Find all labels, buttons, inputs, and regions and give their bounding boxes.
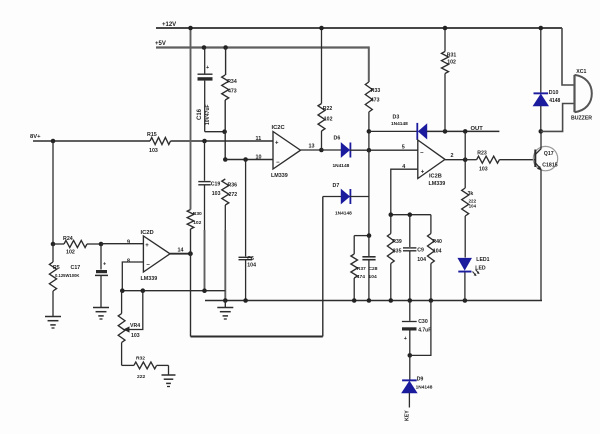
wire ground bus <box>205 300 542 302</box>
op-amp IC2C <box>256 125 301 179</box>
svg-text:C17: C17 <box>71 265 81 271</box>
op-amp IC2D <box>127 230 170 282</box>
svg-text:+5V: +5V <box>155 41 166 47</box>
wire +12V down to D10 <box>540 28 542 92</box>
svg-text:C19: C19 <box>211 182 221 188</box>
svg-text:C30: C30 <box>418 319 428 325</box>
svg-text:OUT: OUT <box>471 126 484 132</box>
junction +12V R31 <box>443 26 448 31</box>
svg-text:XC1: XC1 <box>576 69 586 75</box>
svg-text:1N4148: 1N4148 <box>391 121 408 127</box>
svg-text:IC2B: IC2B <box>429 174 442 180</box>
resistor R32 <box>122 356 169 380</box>
svg-text:1N4148: 1N4148 <box>333 163 350 169</box>
svg-text:−: − <box>420 151 424 157</box>
buzzer XC1 <box>571 69 592 122</box>
pin 8 wire <box>122 262 143 291</box>
transistor Q17 C1815 <box>533 146 557 170</box>
svg-text:473: 473 <box>228 89 237 95</box>
svg-text:10: 10 <box>256 155 262 161</box>
svg-text:R33: R33 <box>371 88 381 94</box>
svg-text:D7: D7 <box>333 183 340 189</box>
svg-text:BUZZER: BUZZER <box>571 116 592 122</box>
junction ground bus C28 <box>367 298 372 303</box>
wire D7 branch vertical <box>322 197 324 337</box>
junction R24 left <box>51 242 56 247</box>
svg-text:R34: R34 <box>227 79 237 85</box>
wire bottom horizontal <box>191 336 323 338</box>
svg-text:−: − <box>276 160 280 166</box>
junction ground bus LED1 <box>463 298 468 303</box>
wire C19 down gray <box>204 230 206 291</box>
junction input/left branch <box>51 139 56 144</box>
svg-text:R32: R32 <box>136 356 145 362</box>
junction +12V R22 <box>319 26 324 31</box>
svg-text:104: 104 <box>247 262 256 268</box>
junction bracket C9 <box>408 212 413 217</box>
ground main <box>217 301 233 320</box>
svg-text:R30: R30 <box>193 211 202 217</box>
junction ground bus R37 <box>352 298 357 303</box>
svg-text:+: + <box>404 336 407 342</box>
junction +5V R34 <box>223 45 228 50</box>
resistor R34 <box>222 48 237 101</box>
svg-text:D9: D9 <box>417 377 424 383</box>
junction C30/R40 bottom <box>408 353 413 358</box>
LED LED1 <box>458 257 489 301</box>
junction +5V C16 <box>202 45 207 50</box>
svg-text:14: 14 <box>178 247 184 253</box>
svg-text:KEY: KEY <box>405 410 411 421</box>
capacitor C28 <box>362 236 377 301</box>
ground C17 <box>93 307 109 309</box>
svg-text:R36: R36 <box>228 183 238 189</box>
svg-text:IC2D: IC2D <box>141 230 154 236</box>
diode D9 1N4148 <box>402 377 433 408</box>
wire +5V drop to R33 <box>368 46 370 82</box>
resistor R5 <box>49 244 79 317</box>
svg-text:102: 102 <box>447 60 456 66</box>
junction VR4 wiper top <box>141 288 146 293</box>
svg-text:11: 11 <box>256 136 262 142</box>
node +12V rail <box>156 22 562 28</box>
svg-text:D10: D10 <box>549 90 559 96</box>
svg-text:VR4: VR4 <box>130 323 140 329</box>
wire D3 net <box>369 130 417 132</box>
svg-text:C9: C9 <box>417 248 424 254</box>
svg-text:104: 104 <box>469 204 477 209</box>
svg-text:+: + <box>145 243 149 249</box>
svg-text:R31: R31 <box>447 53 457 59</box>
svg-text:4.7uF: 4.7uF <box>418 328 431 334</box>
junction C28 top <box>367 233 372 238</box>
node +5V rail <box>155 41 369 48</box>
junction D10/buzzer/collector <box>539 129 544 134</box>
capacitor C9 <box>403 215 426 301</box>
junction pin8 corner <box>120 288 125 293</box>
pin 14 output wire <box>170 247 190 253</box>
ground R32 <box>162 365 176 386</box>
svg-text:474: 474 <box>357 274 365 280</box>
wire +12V to buzzer top <box>562 28 575 85</box>
capacitor C30 <box>402 301 431 356</box>
wire collector up <box>540 131 542 148</box>
wire C16 bottom link <box>205 131 225 133</box>
diode D6 1N4148 <box>333 136 352 170</box>
svg-text:+12V: +12V <box>162 22 176 28</box>
resistor R33 <box>365 82 380 112</box>
junction IC2B output <box>463 157 468 162</box>
svg-text:13: 13 <box>309 144 315 150</box>
svg-text:103: 103 <box>479 167 488 173</box>
svg-text:−: − <box>146 262 150 268</box>
resistor R24 <box>53 236 101 256</box>
capacitor C17 <box>71 244 109 308</box>
svg-text:IC2C: IC2C <box>272 125 286 131</box>
svg-text:LM339: LM339 <box>141 276 158 282</box>
svg-text:R22: R22 <box>323 106 333 112</box>
resistor R22 <box>318 28 333 150</box>
potentiometer VR4 <box>118 291 143 366</box>
svg-text:D6: D6 <box>334 136 341 142</box>
resistor R36 <box>222 179 237 205</box>
pin 13 output wire <box>301 144 322 150</box>
svg-text:C6: C6 <box>247 256 254 262</box>
wire D7 right <box>350 196 369 198</box>
resistor R23 <box>465 150 535 172</box>
wire C30 to D9 <box>409 355 411 379</box>
pin 4 wire <box>391 169 418 215</box>
wire bracket R39-C9-R40 <box>391 214 431 216</box>
wire R30 to output node and down <box>190 229 192 337</box>
svg-text:104: 104 <box>433 249 442 255</box>
junction ground bus R40 <box>429 298 434 303</box>
svg-text:272: 272 <box>229 192 238 198</box>
junction ground bus C6 <box>243 298 248 303</box>
svg-text:+: + <box>206 65 209 71</box>
svg-text:Q17: Q17 <box>544 151 554 157</box>
wire bracket R37-C28 <box>354 235 369 237</box>
junction IC2C output <box>319 148 324 153</box>
junction IC2D output <box>188 251 193 256</box>
junction C19 bottom <box>202 288 207 293</box>
svg-text:LM339: LM339 <box>271 173 288 179</box>
junction C6 top <box>243 157 248 162</box>
wire D3 to OUT <box>427 130 500 132</box>
junction +12V right <box>539 26 544 31</box>
pin 2 output wire <box>445 159 465 161</box>
resistor R31 <box>442 28 457 131</box>
resistor R39 <box>387 215 402 301</box>
svg-text:5: 5 <box>402 145 405 151</box>
svg-text:103: 103 <box>131 333 140 339</box>
svg-text:4148: 4148 <box>549 98 560 104</box>
svg-text:+: + <box>421 170 425 176</box>
svg-text:222: 222 <box>137 374 145 380</box>
svg-text:R23: R23 <box>477 150 487 156</box>
resistor R40 <box>428 215 443 301</box>
svg-text:R15: R15 <box>147 132 157 138</box>
resistor R30 <box>187 210 202 230</box>
svg-text:102: 102 <box>324 117 333 123</box>
wire R40 loop <box>410 301 431 356</box>
wire pin8 net horizontal <box>122 290 225 292</box>
junction C16/R34 link <box>222 129 227 134</box>
wire buzzer bottom lead <box>541 104 575 132</box>
svg-text:9: 9 <box>127 239 130 245</box>
svg-text:103: 103 <box>149 148 158 154</box>
junction D6 net / R33 line <box>367 148 372 153</box>
capacitor C19 <box>198 141 220 230</box>
svg-text:R5: R5 <box>53 265 60 271</box>
wire left branch down <box>52 141 54 244</box>
svg-text:C1815: C1815 <box>542 163 557 169</box>
svg-text:3k: 3k <box>468 191 474 197</box>
svg-text:LED: LED <box>475 266 486 272</box>
junction ground bus C9 <box>408 298 413 303</box>
svg-text:335: 335 <box>393 249 402 255</box>
junction R31 bottom <box>443 129 448 134</box>
junction ground main <box>223 298 228 303</box>
junction +12V R30 <box>188 26 193 31</box>
svg-text:R39: R39 <box>392 239 402 245</box>
node 8V+ input <box>30 134 150 141</box>
diode D10 4148 <box>534 90 561 131</box>
svg-text:C16: C16 <box>197 108 203 120</box>
junction input/C19 branch <box>202 139 207 144</box>
svg-text:102: 102 <box>66 250 75 256</box>
junction pin10 wire left <box>223 157 228 162</box>
wire feedback vertical <box>464 131 466 188</box>
ground R5 <box>45 316 61 318</box>
svg-text:D3: D3 <box>393 115 400 121</box>
svg-text:1N4148: 1N4148 <box>335 211 352 217</box>
svg-text:2: 2 <box>451 153 454 159</box>
resistor R15 <box>147 132 171 154</box>
svg-text:10V47uF: 10V47uF <box>205 104 211 125</box>
wire emitter down <box>540 170 542 301</box>
wire D7 left <box>323 196 342 198</box>
svg-text:104: 104 <box>417 257 426 263</box>
svg-text:8V+: 8V+ <box>30 134 41 140</box>
junction R33/D3 net <box>367 129 372 134</box>
junction R24/C17 node <box>99 242 104 247</box>
diode D7 1N4148 <box>333 183 353 217</box>
diode D3 1N4148 <box>391 115 427 140</box>
svg-text:8: 8 <box>127 258 130 264</box>
svg-text:0.125W100K: 0.125W100K <box>55 273 79 278</box>
svg-text:102: 102 <box>193 220 201 226</box>
wire input to IC2C pin 11 <box>171 140 274 142</box>
svg-text:104: 104 <box>369 274 377 280</box>
wire R33 down through nodes <box>368 112 370 236</box>
capacitor C16 <box>197 48 213 132</box>
junction ground bus R39 <box>389 298 394 303</box>
wire +12V down (R30 line) <box>190 28 192 210</box>
svg-text:C28: C28 <box>369 266 378 272</box>
svg-text:+: + <box>275 141 279 147</box>
wire to IC2D pin 9 <box>101 243 143 245</box>
svg-text:473: 473 <box>371 98 380 104</box>
svg-text:R24: R24 <box>63 236 73 242</box>
junction OUT/IC2B feedback <box>463 129 468 134</box>
svg-text:R37: R37 <box>357 266 366 272</box>
wire IC2C out to D6 <box>321 149 341 151</box>
wire R36 down <box>224 205 226 230</box>
svg-text:LED1: LED1 <box>476 257 489 263</box>
svg-text:R40: R40 <box>432 239 442 245</box>
op-amp IC2B <box>402 140 454 187</box>
svg-text:LM339: LM339 <box>429 181 446 187</box>
wire R34 down to pin10 wire <box>224 100 226 160</box>
wire D6 to IC2B pin5 <box>350 149 418 151</box>
resistor R37 <box>351 236 366 301</box>
capacitor C6 <box>239 160 257 301</box>
svg-text:1N4148: 1N4148 <box>416 385 433 391</box>
wire IC2C pin 10 <box>225 159 273 161</box>
svg-text:+: + <box>103 262 106 268</box>
junction bracket left <box>389 212 394 217</box>
resistor R38 3k <box>462 188 477 258</box>
svg-text:103: 103 <box>212 191 221 197</box>
